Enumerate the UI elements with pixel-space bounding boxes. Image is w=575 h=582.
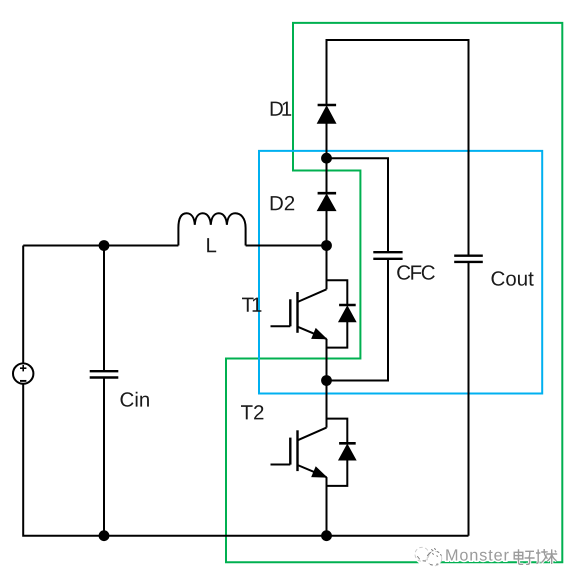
node N3 <box>321 375 332 386</box>
wire source top to inductor <box>23 245 178 247</box>
voltage source <box>13 363 33 383</box>
inductor L <box>178 213 245 245</box>
capacitor Cin <box>90 371 119 377</box>
label D2 <box>271 196 295 210</box>
watermark CJK 电子技术 (drawn strokes) <box>514 549 557 564</box>
wire rail D2-N2-T1 <box>326 210 328 289</box>
wire Cout bottom <box>468 262 470 536</box>
capacitor CFC <box>373 252 402 259</box>
wire rail T2-N4 <box>326 477 328 536</box>
watermark logo <box>415 546 444 566</box>
wire top loop to Cout <box>327 40 469 256</box>
transistor T2 (IGBT) <box>271 419 356 486</box>
label D1 <box>271 102 292 116</box>
wire rail D1-N1-D2 <box>326 123 328 195</box>
node N2 <box>321 240 332 251</box>
label Cin <box>121 392 149 407</box>
label CFC <box>397 265 435 280</box>
wire inductor to N2 <box>246 245 327 247</box>
blue commutation loop <box>259 151 542 394</box>
transistor T1 (IGBT) <box>271 280 356 347</box>
label T2 <box>241 405 263 419</box>
wire left column and bottom rail <box>23 246 468 536</box>
diode D2 <box>318 193 337 210</box>
wire N1 to CFC top <box>327 158 389 252</box>
diode D1 <box>318 105 337 123</box>
node N5 <box>99 240 110 251</box>
watermark text Monster <box>446 549 508 560</box>
node N4 <box>321 530 332 541</box>
capacitor Cout <box>454 256 483 262</box>
wire rail T1-N3-T2 <box>326 339 328 428</box>
node N6 <box>99 530 110 541</box>
wire CFC bottom to N3 <box>327 259 389 381</box>
node N1 <box>321 153 332 164</box>
label L <box>207 238 216 252</box>
green commutation loop <box>226 23 562 562</box>
label Cout <box>492 271 534 286</box>
label T1 <box>242 298 261 312</box>
wire Cin branch <box>103 246 105 536</box>
